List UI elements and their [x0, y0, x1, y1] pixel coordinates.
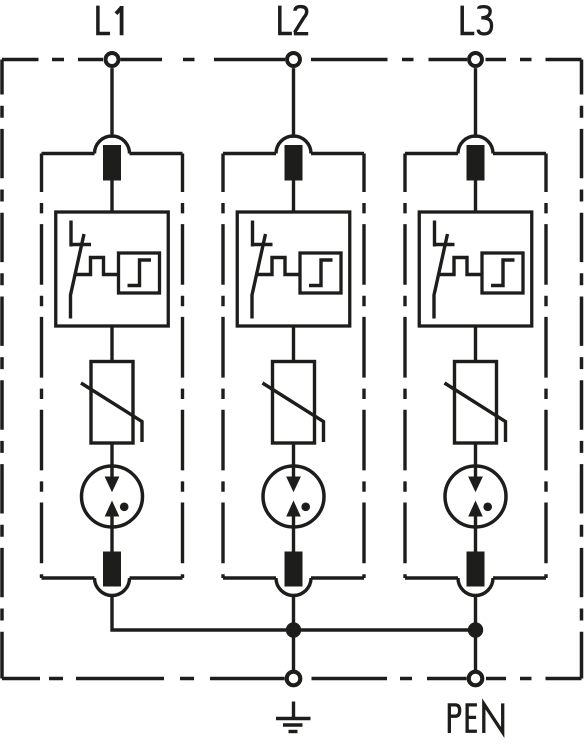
- wire spark gap to bottom contact (phase 2): [292, 527, 295, 552]
- spark gap FS1 lower electrode (up arrow): [105, 501, 120, 528]
- node PEN label: [449, 703, 502, 733]
- disconnector switch symbol (phase 2): [251, 221, 273, 319]
- signalling link (square-wave line, phase 1): [75, 258, 119, 275]
- remote signalling contact box (phase 3): [482, 253, 523, 293]
- plug-in contact X2b (blade + arc socket): [276, 552, 311, 596]
- plug-in contact X3a (arc socket + blade): [458, 136, 493, 180]
- node L2 label: [280, 6, 308, 34]
- ground symbol: [276, 702, 311, 732]
- PEN terminal: [469, 672, 483, 686]
- wire contact to disconnector F1: [110, 180, 113, 214]
- wire phase 2 to neutral terminal: [292, 596, 295, 671]
- terminal L2: [287, 53, 300, 66]
- plug-in contact X1a (arc socket + blade): [95, 136, 130, 180]
- spark gap FS1 trigger dot: [120, 503, 129, 512]
- wire phase 3 to PEN terminal: [474, 596, 477, 671]
- varistor RV2 body: [273, 362, 315, 444]
- protection module boundary F2 (dash-dot box): [223, 154, 364, 579]
- enclosure top border (dash-dot): [2, 58, 582, 62]
- terminal L1: [106, 53, 119, 66]
- thermal disconnection device box (phase 1): [56, 212, 169, 326]
- wire L1 terminal to module: [110, 68, 113, 138]
- enclosure right border (dash-dot): [580, 60, 584, 679]
- wire varistor to spark gap (phase 1): [110, 443, 113, 478]
- spark gap FS2 lower electrode (up arrow): [286, 501, 301, 528]
- spark gap FS3 lower electrode (up arrow): [468, 501, 483, 528]
- remote signalling contact box (phase 1): [119, 253, 160, 293]
- wire phase 1 to common rail (corner): [112, 596, 294, 631]
- remote signalling contact box (phase 2): [300, 253, 341, 293]
- step-function symbol (phase 1): [128, 260, 152, 286]
- protection module boundary F1 (dash-dot box): [42, 154, 183, 579]
- wire L2 terminal to module: [292, 68, 295, 138]
- thermal disconnection device box (phase 3): [419, 212, 532, 326]
- spark gap FS2 circle: [263, 466, 324, 527]
- varistor RV3 body: [455, 362, 497, 444]
- terminal L3: [469, 53, 482, 66]
- spark gap FS3 circle: [445, 466, 506, 527]
- wire varistor to spark gap (phase 2): [292, 443, 295, 478]
- spark gap FS2 trigger dot: [301, 503, 310, 512]
- varistor RV1 diagonal stroke: [81, 383, 142, 442]
- disconnector switch symbol (phase 1): [70, 221, 92, 319]
- wire spark gap to bottom contact (phase 1): [110, 527, 113, 552]
- enclosure bottom border (dash-dot): [2, 677, 582, 681]
- spark gap FS3 trigger dot: [483, 503, 492, 512]
- protection module boundary F3 (dash-dot box): [405, 154, 546, 579]
- earth terminal: [287, 672, 301, 686]
- thermal disconnection device box (phase 2): [237, 212, 350, 326]
- wire spark gap to bottom contact (phase 3): [474, 527, 477, 552]
- junction phase 2 / rail: [286, 622, 301, 637]
- spark gap FS1 circle: [82, 466, 143, 527]
- step-function symbol (phase 3): [491, 260, 515, 286]
- wire disconnector to varistor (phase 2): [292, 326, 295, 362]
- wire disconnector to varistor (phase 1): [110, 326, 113, 362]
- varistor RV3 diagonal stroke: [445, 383, 506, 442]
- step-function symbol (phase 2): [309, 260, 333, 286]
- wire disconnector to varistor (phase 3): [474, 326, 477, 362]
- varistor RV1 body: [91, 362, 133, 444]
- disconnector switch symbol (phase 3): [433, 221, 455, 319]
- enclosure left border (dash-dot): [0, 60, 4, 679]
- varistor RV2 diagonal stroke: [263, 383, 324, 442]
- wire L3 terminal to module: [474, 68, 477, 138]
- plug-in contact X1b (blade + arc socket): [95, 552, 130, 596]
- wire varistor to spark gap (phase 3): [474, 443, 477, 478]
- signalling link (square-wave line, phase 3): [439, 258, 483, 275]
- junction phase 3 / rail: [468, 622, 483, 637]
- plug-in contact X2a (arc socket + blade): [276, 136, 311, 180]
- spark gap FS2 upper electrode (down arrow): [286, 466, 301, 492]
- node L3 label: [462, 6, 491, 34]
- spark gap FS3 upper electrode (down arrow): [468, 466, 483, 492]
- wire contact to disconnector F3: [474, 180, 477, 214]
- plug-in contact X3b (blade + arc socket): [458, 552, 493, 596]
- common rail wire to PEN: [294, 628, 476, 631]
- node L1 label: [98, 6, 122, 36]
- wire contact to disconnector F2: [292, 180, 295, 214]
- spark gap FS1 upper electrode (down arrow): [105, 466, 120, 492]
- signalling link (square-wave line, phase 2): [257, 258, 301, 275]
